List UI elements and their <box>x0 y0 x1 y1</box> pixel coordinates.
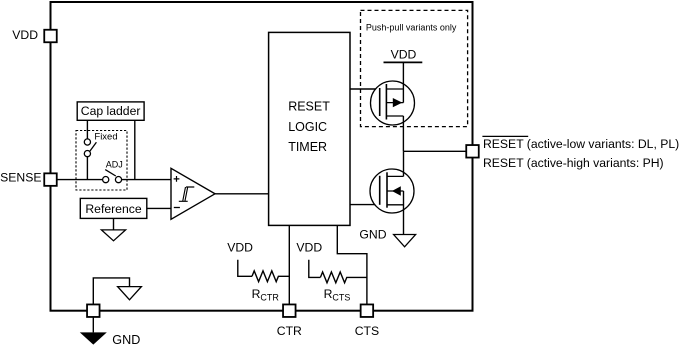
IC boundary box <box>51 2 473 311</box>
pin VDD <box>44 30 57 43</box>
pin RESET <box>466 145 479 158</box>
svg-text:ADJ: ADJ <box>106 160 123 170</box>
wire Reference to ground <box>113 218 115 230</box>
overline for RESET (active-low) <box>482 135 528 137</box>
svg-text:Push-pull variants only: Push-pull variants only <box>366 22 457 32</box>
svg-text:LOGIC: LOGIC <box>288 120 327 134</box>
dashed selector box (Fixed/ADJ) <box>76 131 127 191</box>
pin GND <box>87 304 100 317</box>
transistor Q1 PMOS <box>371 62 415 151</box>
switch Fixed (contact circles and lever) <box>84 139 96 157</box>
svg-text:TIMER: TIMER <box>288 140 327 154</box>
switch ADJ (contact circles and lever) <box>103 170 122 183</box>
block Reference <box>80 198 147 218</box>
svg-text:RESET: RESET <box>288 100 330 114</box>
svg-text:GND: GND <box>112 333 140 346</box>
svg-text:CTS: CTS <box>355 324 379 338</box>
ground (open triangle, internal) <box>118 287 142 300</box>
wire comparator output to reset logic <box>215 193 269 195</box>
hysteresis symbol <box>179 187 195 201</box>
svg-text:Reference: Reference <box>85 202 141 216</box>
block Cap ladder <box>77 102 144 120</box>
wire reset logic to PMOS gate <box>350 88 380 90</box>
svg-text:Fixed: Fixed <box>94 131 117 142</box>
wire output node to RESET pin <box>403 150 466 152</box>
resistor R_CTR <box>252 271 289 282</box>
svg-text:SENSE: SENSE <box>0 170 41 184</box>
ground (filled arrow below GND pin) <box>80 332 107 344</box>
svg-text:VDD: VDD <box>227 240 253 254</box>
pin CTS <box>361 304 374 317</box>
block RESET LOGIC TIMER <box>269 32 350 225</box>
wire Fixed switch to sense rail <box>86 157 88 180</box>
svg-text:CTR: CTR <box>277 324 302 338</box>
wire CTR from reset logic to CTR pin <box>288 225 290 304</box>
svg-text:VDD: VDD <box>12 28 38 42</box>
op-amp U1 comparator <box>171 168 215 219</box>
svg-text:VDD: VDD <box>391 48 417 62</box>
wire Reference to comparator - input <box>147 207 171 209</box>
svg-text:RESET (active-high variants: P: RESET (active-high variants: PH) <box>483 156 664 170</box>
transistor Q2 NMOS <box>370 151 414 234</box>
resistor R_CTS <box>320 272 366 283</box>
svg-text:GND: GND <box>359 227 386 241</box>
wire internal ground L to GND pin <box>93 278 129 305</box>
wire SENSE to ADJ switch <box>57 179 103 181</box>
wire reset logic to NMOS gate <box>350 204 380 206</box>
VDD supply bar <box>384 61 423 63</box>
wire Cap ladder to Fixed switch <box>86 120 88 139</box>
ground (open triangle under Reference) <box>101 230 125 241</box>
wire GND pin to ground arrow <box>92 317 94 332</box>
wire Cap ladder right leg to sense rail <box>134 120 136 179</box>
wire ADJ switch to comparator + input <box>122 179 171 181</box>
wire VDD stub to R_CTS <box>309 260 321 278</box>
pin CTR <box>283 304 296 317</box>
svg-text:RESET (active-low variants: DL: RESET (active-low variants: DL, PL) <box>483 137 679 151</box>
dashed box Push-pull variants only <box>361 10 468 126</box>
wire CTS from reset logic to CTS pin <box>337 225 367 304</box>
ground (open triangle at NMOS source) <box>394 235 416 247</box>
wire VDD stub to R_CTR <box>238 260 252 277</box>
pin SENSE <box>44 173 57 186</box>
svg-text:Cap ladder: Cap ladder <box>81 104 141 118</box>
svg-text:VDD: VDD <box>296 240 322 254</box>
